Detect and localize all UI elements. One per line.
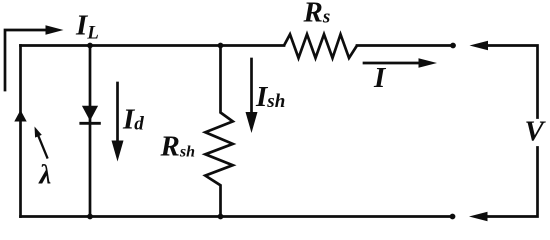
wire: current source branch (left vertical) [19,46,22,217]
svg-text:V: V [525,116,547,148]
node: positive output terminal dot [450,43,456,49]
current source arrow (photogenerated current, upward) [14,110,26,122]
svg-text:Rs: Rs [303,0,331,29]
svg-text:Ish: Ish [255,81,285,113]
diode D (branch wire + symbol) [81,46,100,217]
wire: IL direction indicator L-wire with arrow [5,25,64,90]
Id current arrow [112,83,124,162]
node: bottom junction of diode branch [87,214,93,220]
svg-text:IL: IL [75,10,99,44]
Ish current arrow [246,59,258,133]
wire: top rail right segment [357,44,453,47]
wire: load bottom lead with left arrow [469,148,538,222]
wire: load top lead with left arrow [470,41,538,118]
lambda irradiance arrow [35,127,48,158]
resistor Rsh (branch wire + zigzag) [205,46,233,217]
node: top junction of diode branch [87,43,93,49]
svg-text:λ: λ [38,160,51,190]
wire: top rail left segment [21,44,285,47]
I current arrow [364,58,437,68]
node: negative output terminal dot [450,214,456,220]
svg-text:Rsh: Rsh [160,131,196,163]
svg-text:I: I [373,62,387,94]
wire: bottom rail [21,215,453,218]
resistor Rs (series, horizontal zigzag) [284,34,357,58]
svg-text:Id: Id [122,104,144,136]
node: top junction of Rsh branch [218,43,224,49]
node: bottom junction of Rsh branch [218,214,224,220]
